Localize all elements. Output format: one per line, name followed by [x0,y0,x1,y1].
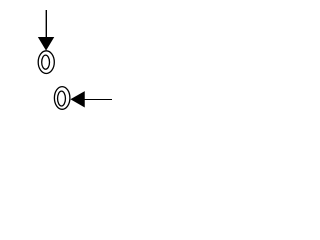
arrowhead of bottom edge [70,91,84,107]
node S1 inner ellipse [42,55,50,69]
node S2 outer ellipse [54,87,70,110]
wire: bottom edge shaft [84,99,112,101]
node S2 inner ellipse [58,91,66,106]
arrowhead of top edge [38,37,54,51]
wire: top edge shaft [45,10,47,38]
node S1 outer ellipse [38,51,54,74]
